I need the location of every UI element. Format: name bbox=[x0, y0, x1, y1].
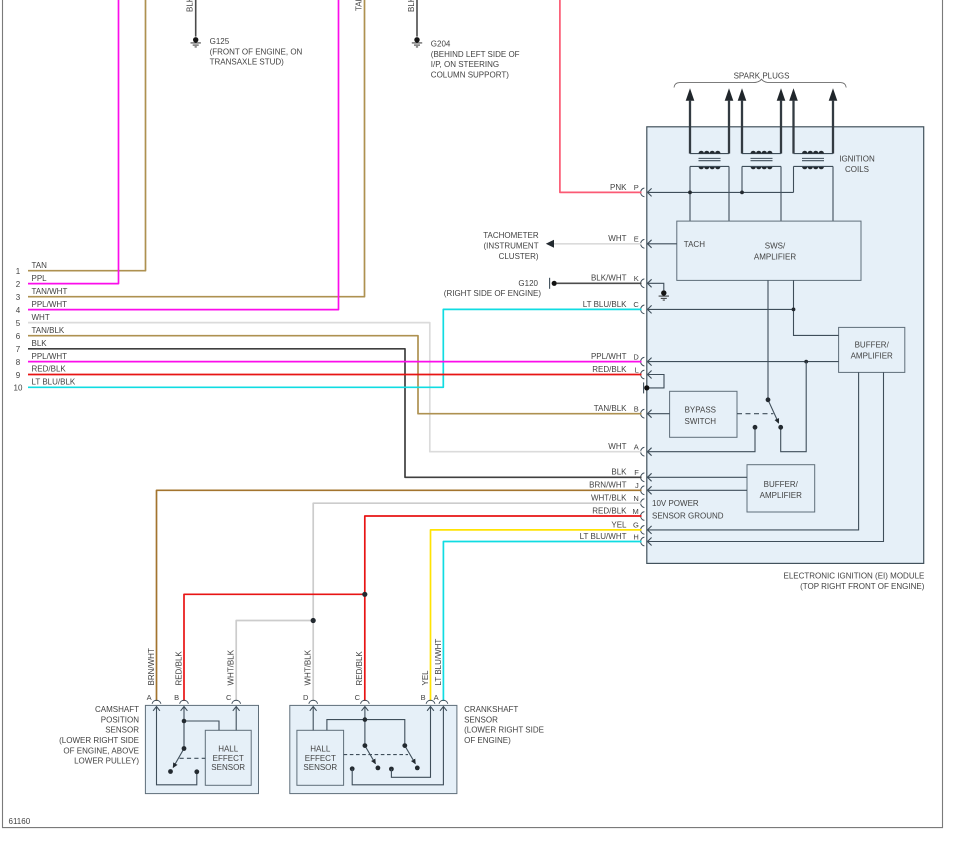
pin A (WHT) of EI module bbox=[641, 447, 652, 456]
svg-text:TAN/BLK: TAN/BLK bbox=[594, 404, 627, 413]
svg-text:SENSOR: SENSOR bbox=[303, 763, 337, 772]
svg-text:E: E bbox=[634, 235, 639, 244]
ground G125 bbox=[191, 37, 201, 47]
svg-text:SENSOR GROUND: SENSOR GROUND bbox=[652, 511, 724, 520]
wire: RED/BLK pin M to crank pin C and cam pin B bbox=[365, 516, 642, 701]
wire: pin E to TACH bbox=[647, 243, 676, 245]
svg-text:PNK: PNK bbox=[610, 183, 627, 192]
wire: WHT pin E to tachometer bbox=[554, 243, 642, 245]
crank internal: hall to pivot2 link bbox=[327, 720, 405, 744]
wire: PNK bus from pin P to coil primaries bbox=[647, 191, 793, 193]
pin L (RED/BLK) of EI module bbox=[641, 370, 652, 379]
svg-text:D: D bbox=[633, 352, 639, 361]
svg-text:5: 5 bbox=[16, 319, 21, 328]
cam contact dot bbox=[194, 769, 199, 774]
wire 8: PPL/WHT bbox=[28, 361, 642, 363]
wire 6: TAN/BLK bbox=[28, 336, 642, 414]
svg-text:EFFECT: EFFECT bbox=[213, 754, 244, 763]
cam internal: pin A to contact bbox=[157, 707, 197, 785]
svg-text:EFFECT: EFFECT bbox=[305, 754, 336, 763]
svg-text:TAN: TAN bbox=[32, 261, 48, 270]
svg-text:4: 4 bbox=[16, 306, 21, 315]
svg-text:(FRONT OF ENGINE, ON: (FRONT OF ENGINE, ON bbox=[210, 47, 303, 56]
svg-text:HALL: HALL bbox=[218, 745, 239, 754]
svg-text:TRANSAXLE STUD): TRANSAXLE STUD) bbox=[210, 58, 285, 67]
svg-text:C: C bbox=[633, 300, 639, 309]
svg-text:I/P, ON STEERING: I/P, ON STEERING bbox=[431, 60, 499, 69]
wire 10: LT BLU/BLK bbox=[28, 309, 642, 387]
cam dashed link lever to hall sensor bbox=[180, 757, 206, 759]
wire: pin D to upper buffer bbox=[647, 361, 838, 363]
pin H (LT BLU/WHT) of EI module bbox=[641, 537, 652, 546]
pin E (WHT) of EI module bbox=[641, 239, 652, 248]
svg-text:BUFFER/: BUFFER/ bbox=[855, 341, 890, 350]
svg-text:1: 1 bbox=[16, 267, 21, 276]
svg-text:SENSOR: SENSOR bbox=[211, 763, 245, 772]
pin C (LT BLU/BLK) of EI module bbox=[641, 305, 652, 314]
crank lever1 tip dot bbox=[376, 766, 381, 771]
svg-text:OF ENGINE, ABOVE: OF ENGINE, ABOVE bbox=[63, 746, 139, 755]
svg-text:BYPASS: BYPASS bbox=[685, 406, 716, 415]
svg-text:BLK/WHT: BLK/WHT bbox=[591, 274, 627, 283]
svg-text:(BEHIND LEFT SIDE OF: (BEHIND LEFT SIDE OF bbox=[431, 50, 520, 59]
svg-text:TAN/BLK: TAN/BLK bbox=[32, 326, 65, 335]
spark plugs brace bbox=[674, 79, 846, 87]
bypass lever tip dot bbox=[778, 425, 783, 430]
svg-text:L: L bbox=[635, 365, 639, 374]
svg-text:ELECTRONIC IGNITION (EI) MODUL: ELECTRONIC IGNITION (EI) MODULE bbox=[783, 572, 924, 581]
crankshaft sensor box bbox=[290, 705, 457, 793]
svg-text:PPL/WHT: PPL/WHT bbox=[32, 352, 68, 361]
svg-text:61160: 61160 bbox=[9, 817, 31, 826]
svg-text:CLUSTER): CLUSTER) bbox=[499, 252, 539, 261]
wire: pin J to lower buffer bbox=[647, 489, 747, 491]
svg-text:G204: G204 bbox=[431, 40, 451, 49]
svg-text:CAMSHAFT: CAMSHAFT bbox=[95, 705, 139, 714]
wire: D junction down to lever tip bbox=[781, 362, 807, 452]
wire: YEL pin G to crank pin B bbox=[431, 530, 642, 701]
pin B of crankshaft sensor bbox=[426, 700, 435, 710]
crank switch lever 1 bbox=[365, 746, 376, 764]
svg-text:(LOWER RIGHT SIDE: (LOWER RIGHT SIDE bbox=[59, 736, 139, 745]
wire: pin C to SWS vertical bbox=[647, 308, 793, 310]
svg-text:LT BLU/WHT: LT BLU/WHT bbox=[434, 639, 443, 686]
svg-text:TACHOMETER: TACHOMETER bbox=[483, 231, 539, 240]
svg-text:(RIGHT SIDE OF ENGINE): (RIGHT SIDE OF ENGINE) bbox=[444, 289, 542, 298]
svg-text:RED/BLK: RED/BLK bbox=[32, 365, 67, 374]
hall effect sensor box (camshaft) bbox=[205, 730, 251, 785]
arrow to tachometer bbox=[546, 240, 554, 248]
wire: SWS box down to bypass lever pivot bbox=[767, 280, 769, 398]
pin P (PNK) of EI module bbox=[641, 188, 652, 197]
wire 7: BLK bbox=[28, 349, 642, 478]
svg-text:10: 10 bbox=[14, 384, 23, 393]
pin C of crankshaft sensor bbox=[361, 700, 370, 710]
svg-text:9: 9 bbox=[16, 371, 21, 380]
junction dot D bbox=[804, 360, 808, 364]
pin stub and dot at module edge below L bbox=[643, 382, 645, 393]
svg-text:2: 2 bbox=[16, 280, 21, 289]
internal ground at pin K bbox=[659, 290, 669, 300]
pin G (YEL) of EI module bbox=[641, 526, 652, 535]
svg-text:D: D bbox=[303, 693, 309, 702]
svg-text:WHT: WHT bbox=[32, 313, 50, 322]
wire: BLK/WHT G120 to pin K bbox=[557, 282, 642, 284]
svg-text:AMPLIFIER: AMPLIFIER bbox=[760, 491, 802, 500]
junction dot WHT/BLK bbox=[311, 618, 316, 623]
svg-text:LT BLU/BLK: LT BLU/BLK bbox=[583, 300, 627, 309]
svg-text:10V POWER: 10V POWER bbox=[652, 499, 699, 508]
svg-text:SWITCH: SWITCH bbox=[685, 417, 717, 426]
svg-text:K: K bbox=[634, 274, 639, 283]
pin D of crankshaft sensor bbox=[309, 700, 318, 710]
svg-text:G: G bbox=[633, 521, 639, 530]
pin K (BLK/WHT) of EI module bbox=[641, 279, 652, 288]
svg-text:(TOP RIGHT FRONT OF ENGINE): (TOP RIGHT FRONT OF ENGINE) bbox=[800, 582, 925, 591]
svg-text:LOWER PULLEY): LOWER PULLEY) bbox=[74, 757, 139, 766]
svg-text:J: J bbox=[635, 481, 639, 490]
svg-text:B: B bbox=[421, 693, 426, 702]
svg-text:TACH: TACH bbox=[684, 240, 705, 249]
wire: pin H up to upper buffer bbox=[647, 372, 883, 541]
crank contact1 dot to pin A bbox=[350, 766, 355, 771]
svg-text:IGNITION: IGNITION bbox=[839, 155, 875, 164]
pin F (BLK) of EI module bbox=[641, 473, 652, 482]
svg-text:P: P bbox=[634, 183, 639, 192]
svg-text:8: 8 bbox=[16, 358, 21, 367]
svg-text:H: H bbox=[633, 532, 638, 541]
pin N (WHT/BLK) of EI module bbox=[641, 499, 645, 508]
bypass stationary contact dot bbox=[753, 425, 758, 430]
svg-text:HALL: HALL bbox=[310, 745, 331, 754]
wire: pin K to internal ground bbox=[647, 283, 663, 290]
electronic ignition EI module box bbox=[647, 127, 924, 564]
svg-text:RED/BLK: RED/BLK bbox=[174, 651, 183, 686]
svg-text:3: 3 bbox=[16, 293, 21, 302]
svg-text:6: 6 bbox=[16, 332, 21, 341]
cam internal: pin B down to pivot bbox=[183, 707, 185, 749]
svg-text:BLK: BLK bbox=[407, 0, 416, 12]
wire: pin L loop bbox=[647, 375, 664, 388]
wire: WHT/BLK pin N to crank pin D and cam pin C bbox=[313, 503, 641, 701]
wire: pin A to bypass contact bbox=[647, 430, 755, 452]
spark plug wires with arrows to spark plugs bbox=[686, 88, 695, 101]
ground G204 bbox=[412, 37, 422, 47]
pin D (PPL/WHT) of EI module bbox=[641, 357, 652, 366]
svg-text:OF ENGINE): OF ENGINE) bbox=[464, 736, 511, 745]
svg-text:7: 7 bbox=[16, 345, 21, 354]
svg-text:A: A bbox=[147, 693, 152, 702]
ignition coil 2 bbox=[742, 153, 781, 155]
wire: pin B to bypass switch box bbox=[647, 413, 669, 415]
wire 1: TAN bbox=[28, 0, 146, 271]
bypass switch lever bbox=[768, 400, 779, 423]
svg-text:WHT: WHT bbox=[608, 442, 626, 451]
pin C of camshaft sensor bbox=[232, 700, 241, 710]
hall effect sensor box (crankshaft) bbox=[297, 730, 344, 785]
pin J (BRN/WHT) of EI module bbox=[641, 486, 652, 495]
svg-text:COLUMN SUPPORT): COLUMN SUPPORT) bbox=[431, 71, 509, 80]
wire: BLK to ground G204 bbox=[416, 0, 418, 37]
svg-text:WHT/BLK: WHT/BLK bbox=[227, 649, 236, 685]
svg-text:PPL/WHT: PPL/WHT bbox=[32, 300, 68, 309]
svg-text:B: B bbox=[634, 405, 639, 414]
svg-text:BLK: BLK bbox=[611, 468, 627, 477]
dashed link bypass switch to lever bbox=[737, 413, 773, 415]
camshaft position sensor box bbox=[145, 705, 258, 793]
crank internal: pin C down to pivot1 bbox=[364, 707, 366, 746]
cam lever tip dot bbox=[168, 769, 173, 774]
svg-text:TAN/WHT: TAN/WHT bbox=[32, 287, 68, 296]
cam internal: pin C to hall box bbox=[235, 707, 237, 730]
svg-text:AMPLIFIER: AMPLIFIER bbox=[754, 253, 796, 262]
svg-text:TAN/WHT: TAN/WHT bbox=[354, 0, 363, 11]
wire: pin G up to upper buffer bbox=[647, 372, 858, 530]
svg-text:RED/BLK: RED/BLK bbox=[592, 365, 627, 374]
svg-text:POSITION: POSITION bbox=[101, 715, 139, 724]
wire: PNK from top to pin P bbox=[560, 0, 642, 192]
junction dot C bbox=[792, 308, 796, 312]
svg-text:M: M bbox=[633, 507, 639, 516]
svg-text:SENSOR: SENSOR bbox=[464, 715, 498, 724]
crank lever2 tip dot bbox=[415, 766, 420, 771]
box BYPASS SWITCH bbox=[670, 391, 737, 437]
bypass pivot dot bbox=[766, 397, 771, 402]
svg-text:SENSOR: SENSOR bbox=[105, 726, 139, 735]
box BUFFER/AMPLIFIER (lower) bbox=[747, 465, 815, 512]
svg-text:WHT: WHT bbox=[608, 234, 626, 243]
svg-text:(INSTRUMENT: (INSTRUMENT bbox=[483, 241, 538, 250]
svg-text:CRANKSHAFT: CRANKSHAFT bbox=[464, 705, 518, 714]
svg-text:C: C bbox=[226, 693, 232, 702]
wire 3: TAN/WHT bbox=[28, 0, 365, 297]
cam switch lever bbox=[173, 749, 184, 768]
svg-text:BLK: BLK bbox=[186, 0, 195, 12]
pin A of crankshaft sensor bbox=[439, 700, 448, 710]
ignition coil 3 bbox=[794, 153, 834, 155]
svg-text:RED/BLK: RED/BLK bbox=[592, 506, 627, 515]
svg-text:SWS/: SWS/ bbox=[765, 242, 786, 251]
junction dot coil1/bus bbox=[688, 191, 692, 195]
svg-text:B: B bbox=[174, 693, 179, 702]
svg-text:YEL: YEL bbox=[421, 670, 430, 686]
svg-text:WHT/BLK: WHT/BLK bbox=[591, 494, 627, 503]
crank switch lever 2 bbox=[405, 746, 416, 764]
pin A of camshaft sensor bbox=[152, 700, 161, 710]
wire: pin F to lower buffer bbox=[647, 476, 747, 478]
cam internal: branch B to hall box bbox=[184, 721, 219, 730]
op box U1 SWS/AMPLIFIER bbox=[677, 221, 861, 280]
wire 9: RED/BLK bbox=[28, 374, 642, 376]
svg-text:PPL: PPL bbox=[32, 274, 48, 283]
svg-text:F: F bbox=[634, 468, 639, 477]
svg-text:(LOWER RIGHT SIDE: (LOWER RIGHT SIDE bbox=[464, 726, 544, 735]
pin M (RED/BLK) of EI module bbox=[641, 512, 645, 521]
wire: BLK to ground G125 bbox=[195, 0, 197, 37]
svg-text:BRN/WHT: BRN/WHT bbox=[147, 648, 156, 685]
crank internal: pin D to hall box bbox=[312, 707, 314, 730]
svg-text:LT BLU/WHT: LT BLU/WHT bbox=[580, 532, 627, 541]
junction dot cam B bbox=[182, 719, 187, 724]
junction dot crank C bbox=[363, 717, 368, 722]
junction dot coil2/bus bbox=[740, 191, 744, 195]
svg-text:COILS: COILS bbox=[845, 165, 869, 174]
crank contact2 dot to pin B bbox=[389, 767, 394, 772]
wire 4: PPL/WHT bbox=[28, 0, 339, 310]
svg-text:PPL/WHT: PPL/WHT bbox=[591, 352, 627, 361]
svg-text:G120: G120 bbox=[518, 279, 538, 288]
svg-text:N: N bbox=[633, 494, 638, 503]
svg-text:C: C bbox=[355, 693, 361, 702]
pin B of camshaft sensor bbox=[180, 700, 189, 710]
crank dashed link hall to levers bbox=[344, 754, 408, 756]
pin B (TAN/BLK) of EI module bbox=[641, 409, 652, 418]
svg-text:RED/BLK: RED/BLK bbox=[355, 651, 364, 686]
wire 5: WHT bbox=[28, 323, 642, 452]
svg-text:A: A bbox=[434, 693, 439, 702]
svg-text:BRN/WHT: BRN/WHT bbox=[589, 481, 626, 490]
svg-text:WHT/BLK: WHT/BLK bbox=[304, 649, 313, 685]
svg-text:AMPLIFIER: AMPLIFIER bbox=[851, 352, 893, 361]
svg-text:BLK: BLK bbox=[32, 339, 48, 348]
box BUFFER/AMPLIFIER (upper right) bbox=[839, 327, 905, 372]
wire: LT BLU/WHT pin H to crank pin A bbox=[443, 542, 641, 702]
svg-text:BUFFER/: BUFFER/ bbox=[764, 480, 799, 489]
G120 connector tick and dot bbox=[549, 278, 551, 289]
svg-text:YEL: YEL bbox=[611, 520, 627, 529]
wire: SWS box to upper buffer (via C junction) bbox=[794, 280, 839, 335]
svg-text:A: A bbox=[634, 443, 639, 452]
ignition coil 1 bbox=[690, 153, 729, 155]
wire: BRN/WHT pin J to camshaft sensor pin A bbox=[157, 490, 642, 701]
svg-text:LT BLU/BLK: LT BLU/BLK bbox=[32, 378, 76, 387]
wire 2: PPL bbox=[28, 0, 119, 284]
junction dot RED/BLK bbox=[362, 592, 367, 597]
svg-text:G125: G125 bbox=[210, 37, 230, 46]
